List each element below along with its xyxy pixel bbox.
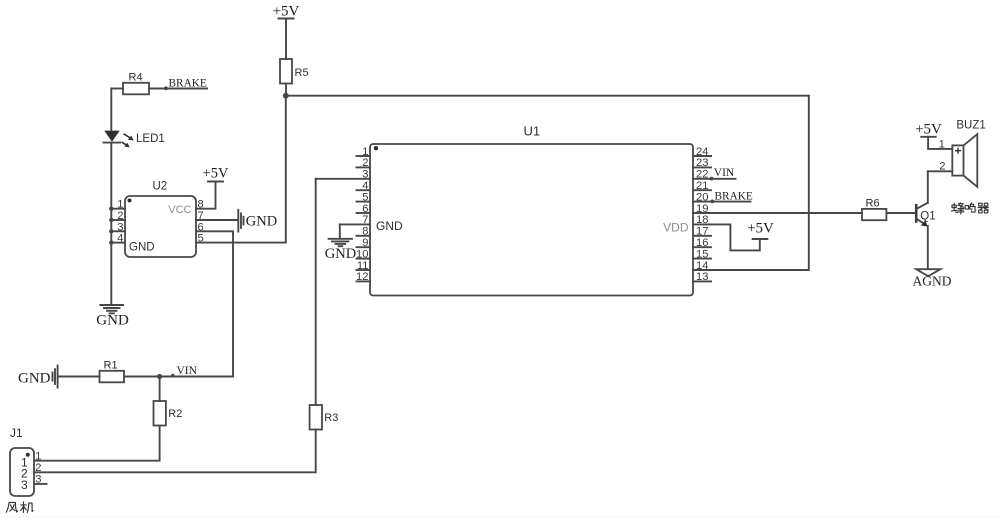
svg-text:BUZ1: BUZ1 — [956, 119, 985, 131]
scan artifact band at bottom — [0, 515, 1000, 518]
wire junction down to R2 — [159, 377, 161, 402]
power +5V (U2 pin 8) — [203, 166, 229, 182]
svg-text:BRAKE: BRAKE — [169, 77, 207, 89]
U2 pin 3 — [109, 221, 125, 233]
node BRAKE tap dot — [164, 86, 168, 90]
svg-text:BRAKE: BRAKE — [715, 190, 753, 202]
svg-text:+5V: +5V — [273, 4, 300, 20]
U1 pin 8 — [357, 226, 371, 238]
U1 pin 3 — [316, 169, 370, 181]
U1 pin 16 — [693, 237, 711, 249]
U1 pin 2 — [357, 157, 371, 169]
power +5V (BUZ1 pin 1) — [915, 121, 942, 137]
svg-text:+5V: +5V — [203, 166, 229, 182]
wire BUZ1 pin 2 to collector — [928, 170, 952, 172]
svg-text:5: 5 — [198, 233, 204, 245]
wire LED1 to GND — [110, 143, 112, 305]
resistor R2 — [154, 401, 183, 426]
U2 pin 2 — [109, 210, 125, 222]
U1 pin 7 — [340, 214, 370, 226]
svg-text:LED1: LED1 — [136, 133, 165, 145]
svg-text:GND: GND — [18, 371, 51, 387]
U1 pin 11 — [357, 260, 371, 272]
connector J1 — [10, 426, 34, 496]
svg-text:R6: R6 — [866, 198, 880, 210]
svg-text:GND: GND — [376, 219, 403, 233]
wire +5V to R5 — [285, 19, 287, 60]
LED LED1 — [104, 131, 165, 148]
svg-text:Q1: Q1 — [920, 210, 935, 222]
wire Q1 emitter down to AGND — [927, 226, 929, 269]
wire down right side to U1 pin 14 — [693, 96, 809, 270]
U1 pin 17 — [693, 226, 711, 238]
U1 pin 9 — [357, 237, 371, 249]
U1 pin 23 — [693, 157, 711, 169]
svg-text:R3: R3 — [324, 412, 338, 424]
svg-text:U1: U1 — [524, 124, 541, 139]
U1 pin 15 — [693, 248, 711, 260]
wire corner to R4 — [111, 88, 123, 90]
svg-text:U2: U2 — [153, 181, 168, 193]
U2 pin 4 — [109, 233, 125, 245]
resistor R4 — [123, 72, 149, 95]
U1 pin 6 — [357, 203, 371, 215]
svg-text:VDD: VDD — [663, 221, 689, 235]
power +5V (U1 pin 18) — [747, 221, 774, 239]
svg-text:1: 1 — [35, 451, 41, 463]
resistor R1 — [100, 359, 125, 382]
ground GND (below LED1/U2 pins) — [96, 305, 129, 329]
net VIN tap dot — [171, 374, 174, 377]
svg-text:+5V: +5V — [747, 221, 774, 237]
U1 pin 4 — [357, 180, 371, 192]
svg-text:AGND: AGND — [913, 274, 952, 289]
svg-text:VIN: VIN — [177, 365, 198, 377]
node junction (R5 net) — [283, 93, 289, 99]
U1 pin 14 — [693, 260, 709, 272]
resistor R6 — [862, 198, 886, 221]
wire R1 to pin6 riser — [124, 376, 233, 378]
buzzer BUZ1 — [952, 119, 986, 187]
U2 pin 7 wire — [196, 210, 238, 222]
wire junction down to U2 pin 5 — [196, 96, 286, 243]
U1 pin 5 — [357, 191, 371, 203]
svg-text:GND: GND — [129, 242, 155, 254]
svg-text:R1: R1 — [104, 359, 118, 371]
svg-text:+5V: +5V — [915, 121, 942, 137]
ground GND (U2 pin 7, sideways) — [238, 210, 277, 232]
svg-text:R2: R2 — [168, 408, 182, 420]
U1 pin 12 — [356, 271, 370, 283]
svg-text:GND: GND — [246, 214, 277, 230]
transistor Q1 — [916, 203, 935, 227]
U1 pin 18 — [693, 214, 760, 250]
J1 pin 3 stub — [34, 483, 47, 485]
svg-text:GND: GND — [325, 246, 356, 262]
net VIN (U1 pin 22) — [710, 167, 735, 181]
net BRAKE (U1 pin 20) — [710, 190, 752, 203]
wire junction to top-right corner — [286, 95, 809, 97]
IC U1 — [370, 124, 693, 296]
IC U2 — [125, 181, 196, 257]
svg-text:R4: R4 — [129, 72, 143, 84]
wire R2 down to J1 pin 1 — [34, 426, 160, 461]
svg-text:R5: R5 — [295, 67, 309, 79]
wire R4 down to LED1 — [110, 89, 112, 132]
U2 pin 6 wire down to VIN net — [196, 221, 233, 376]
wire Q1 collector up to BUZ1 pin 2 — [927, 171, 929, 203]
svg-text:1: 1 — [939, 138, 945, 150]
U1 pin 19 — [693, 203, 862, 215]
wire R3 up to U1 pin 3 — [315, 179, 317, 405]
wire R6 to Q1 base — [886, 212, 916, 214]
svg-text:J1: J1 — [10, 426, 23, 440]
label 风机 (fan) — [6, 502, 33, 513]
U2 pin 8 wire to +5V — [196, 182, 216, 211]
power +5V (top, above R5) — [273, 4, 300, 20]
node VIN junction — [157, 374, 162, 379]
wire GND to R1 — [58, 376, 100, 378]
ground AGND (open triangle) — [913, 269, 952, 288]
J1 pin 2 wire to R3 — [34, 430, 316, 473]
resistor R3 — [310, 405, 339, 430]
U1 pin 21 — [693, 180, 711, 192]
wire R4 to BRAKE stub — [149, 88, 207, 90]
ground GND (U1 pin 7) — [325, 224, 356, 262]
U1 pin 10 — [356, 248, 370, 260]
U1 pin 24 — [693, 146, 711, 158]
svg-text:VCC: VCC — [168, 204, 191, 216]
U2 pin 1 — [109, 199, 125, 211]
ground symbol (sideways, left of R1) — [53, 366, 58, 388]
U1 pin 20 — [693, 191, 751, 203]
wire +5V to BUZ1 pin 1 — [928, 137, 952, 149]
U1 pin 1 — [357, 146, 371, 158]
label 蜂鸣器 (buzzer) — [951, 203, 988, 214]
wire R5 to junction — [285, 84, 287, 96]
svg-text:GND: GND — [96, 313, 129, 329]
U1 pin 13 — [693, 271, 711, 283]
resistor R5 — [280, 59, 309, 84]
svg-text:VIN: VIN — [714, 167, 735, 179]
svg-text:3: 3 — [21, 478, 28, 492]
U1 pin 22 — [693, 169, 736, 181]
